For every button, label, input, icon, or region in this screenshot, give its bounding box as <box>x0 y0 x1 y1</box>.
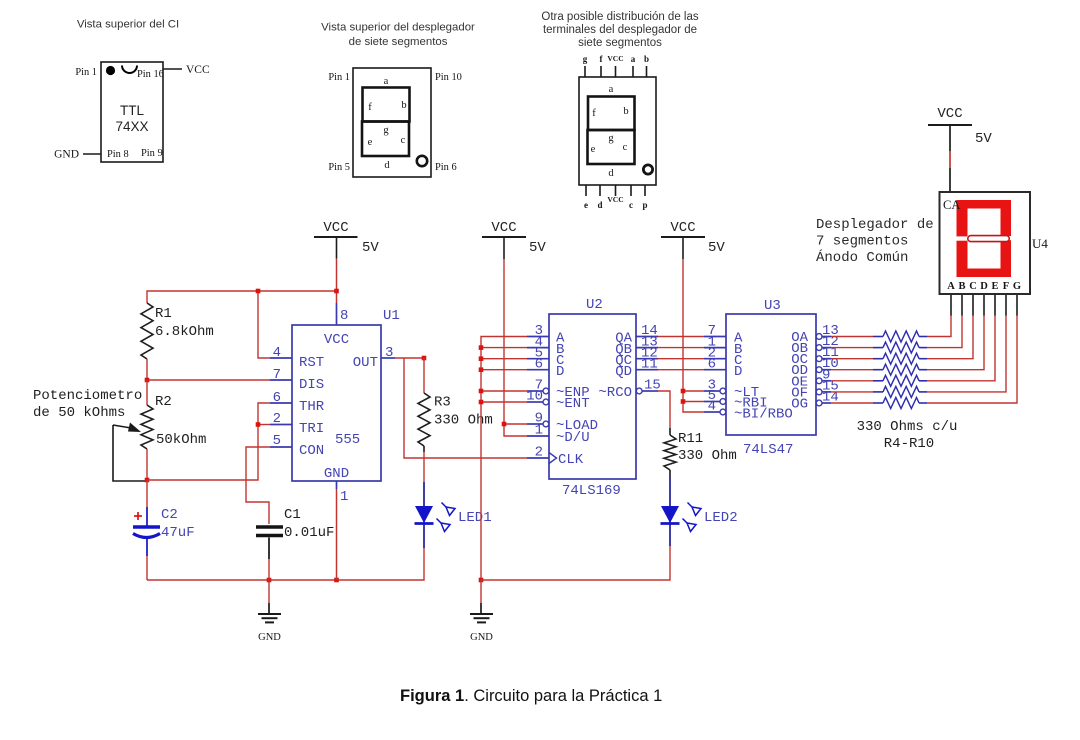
display pin leads (black) <box>951 294 1017 316</box>
capacitor C2 47uF (polarized) <box>133 507 195 556</box>
wire C1 to rail <box>268 559 270 580</box>
wire top VCC rail <box>147 291 337 303</box>
svg-text:7 segmentos: 7 segmentos <box>816 234 908 250</box>
svg-text:U4: U4 <box>1032 236 1048 251</box>
svg-text:4: 4 <box>708 399 716 415</box>
svg-text:D: D <box>556 364 564 380</box>
svg-text:0.01uF: 0.01uF <box>284 525 334 541</box>
svg-text:6: 6 <box>535 356 543 372</box>
wire R11 to LED2 <box>669 470 671 478</box>
svg-text:b: b <box>644 54 649 64</box>
svg-text:4: 4 <box>273 345 281 361</box>
svg-text:11: 11 <box>641 356 658 372</box>
svg-text:5V: 5V <box>362 240 379 256</box>
resistor R6 330 Ohm <box>873 353 927 364</box>
svg-text:10: 10 <box>526 389 543 405</box>
svg-text:VCC: VCC <box>186 64 210 76</box>
junction pin1/rail <box>334 578 339 583</box>
svg-text:2: 2 <box>273 411 281 427</box>
label Pin 8 <box>107 149 129 160</box>
wires resistors to display segment pins <box>927 315 1017 403</box>
svg-text:CA: CA <box>943 198 960 212</box>
LED1 light arrows <box>437 503 456 532</box>
svg-text:c: c <box>401 135 406 146</box>
svg-text:6.8kOhm: 6.8kOhm <box>155 324 214 340</box>
label CA <box>943 198 960 212</box>
svg-text:VCC: VCC <box>607 54 623 63</box>
U3 right pin stubs <box>816 334 822 340</box>
IC notch arc <box>122 66 137 74</box>
power symbol VCC 5V (U1) <box>314 220 379 259</box>
wire rail to pin8 <box>336 291 338 303</box>
svg-text:5V: 5V <box>975 131 992 147</box>
svg-text:C1: C1 <box>284 507 301 523</box>
svg-text:~ENT: ~ENT <box>556 396 590 412</box>
svg-text:a: a <box>631 54 636 64</box>
wire R1 bottom to DIS node <box>146 359 148 380</box>
svg-text:CLK: CLK <box>558 452 584 468</box>
LED2 light arrows <box>683 503 702 532</box>
title: Vista superior del CI <box>77 19 179 31</box>
junction DIS node <box>145 378 150 383</box>
label Pin 10 <box>435 72 462 83</box>
LED1 <box>415 482 434 548</box>
figure-8 segment outline <box>362 88 410 157</box>
svg-text:Pin 10: Pin 10 <box>435 72 462 83</box>
svg-text:U3: U3 <box>764 298 781 314</box>
svg-text:Pin 8: Pin 8 <box>107 149 129 160</box>
wire DIS <box>147 379 270 381</box>
designator U4 <box>1032 236 1048 251</box>
svg-text:d: d <box>608 168 614 179</box>
value 74LS47 <box>743 442 793 458</box>
svg-text:QD: QD <box>615 364 632 380</box>
svg-text:2: 2 <box>535 445 543 461</box>
caption Figura 1 <box>400 687 662 705</box>
wire U2 input ground bus <box>481 337 527 581</box>
svg-text:RST: RST <box>299 355 324 371</box>
wires QA-QD to U3 A-D <box>658 337 704 370</box>
title: Vista superior del desplegador de siete segmentos <box>321 22 475 49</box>
svg-text:terminales del desplegador de: terminales del desplegador de <box>543 24 697 36</box>
svg-text:THR: THR <box>299 399 325 415</box>
potentiometer R2 50kOhm <box>141 394 206 449</box>
label LED1 <box>458 510 492 526</box>
svg-text:D: D <box>734 364 742 380</box>
svg-text:6: 6 <box>273 390 281 406</box>
svg-text:5V: 5V <box>708 240 725 256</box>
svg-text:g: g <box>608 133 614 144</box>
label R4-R10 <box>884 436 934 452</box>
svg-text:b: b <box>401 100 406 111</box>
svg-text:siete segmentos: siete segmentos <box>578 37 662 49</box>
svg-text:74XX: 74XX <box>115 119 148 134</box>
ground symbol 1 <box>258 580 281 643</box>
op IC U1 555 timer body <box>270 303 395 505</box>
svg-text:3: 3 <box>385 345 393 361</box>
junction LOAD <box>502 422 507 427</box>
svg-text:R3: R3 <box>434 395 451 411</box>
junction TRI <box>256 422 261 427</box>
svg-text:f: f <box>592 108 596 119</box>
svg-text:VCC: VCC <box>937 106 962 122</box>
label Pin 6 <box>435 162 457 173</box>
svg-text:LED1: LED1 <box>458 510 492 526</box>
svg-text:50kOhm: 50kOhm <box>156 432 206 448</box>
svg-text:e: e <box>584 200 588 210</box>
wire R3 to LED1 <box>423 446 425 482</box>
svg-text:G: G <box>1013 281 1021 292</box>
resistor R1 6.8kOhm <box>141 303 214 359</box>
pin stubs left <box>270 357 292 359</box>
wires U3 outputs to resistors <box>831 337 873 404</box>
svg-text:47uF: 47uF <box>161 525 195 541</box>
designator U1 <box>383 308 400 324</box>
svg-text:g: g <box>383 125 389 136</box>
svg-text:6: 6 <box>708 356 716 372</box>
svg-text:D: D <box>980 281 988 292</box>
svg-text:a: a <box>609 84 614 95</box>
svg-text:~D/U: ~D/U <box>556 430 590 446</box>
resistor R7 330 Ohm <box>873 364 927 375</box>
pin stub bottom 1 <box>336 481 338 489</box>
wire CON to C1 <box>246 447 270 524</box>
junction C1/rail <box>267 578 272 583</box>
potentiometer wiper arrow <box>113 423 141 433</box>
svg-text:74LS169: 74LS169 <box>562 483 621 499</box>
wire VCC stem to rail <box>336 259 338 291</box>
svg-text:Pin 5: Pin 5 <box>328 162 350 173</box>
wire bottom ground rail (right) <box>481 546 670 580</box>
display segment pin letters <box>947 281 1021 292</box>
pin stub right 3 <box>381 357 395 359</box>
svg-text:Pin 1: Pin 1 <box>75 67 97 78</box>
GND lead on IC view <box>54 149 101 161</box>
power symbol VCC 5V (display) <box>928 106 992 151</box>
IC 74XX top-view body <box>101 62 163 162</box>
wire VCC to display CA <box>949 151 951 192</box>
svg-text:Otra posible distribución de l: Otra posible distribución de las <box>541 11 698 23</box>
svg-text:OG: OG <box>791 397 808 413</box>
svg-text:Pin 1: Pin 1 <box>328 72 350 83</box>
svg-text:a: a <box>384 76 389 87</box>
resistor R11 330 Ohm <box>664 428 737 470</box>
svg-text:d: d <box>597 200 602 210</box>
svg-text:7: 7 <box>273 367 281 383</box>
svg-text:GND: GND <box>54 149 79 161</box>
svg-text:C: C <box>969 281 977 292</box>
svg-text:GND: GND <box>470 632 493 643</box>
label 330 Ohms c/u <box>857 419 958 435</box>
svg-text:GND: GND <box>258 632 281 643</box>
svg-text:R1: R1 <box>155 306 172 322</box>
svg-text:Potenciometro: Potenciometro <box>33 388 142 404</box>
svg-text:TRI: TRI <box>299 421 324 437</box>
svg-text:e: e <box>591 144 596 155</box>
svg-text:~RCO: ~RCO <box>598 385 632 401</box>
designator U2 <box>586 297 603 313</box>
label Pin 5 <box>328 162 350 173</box>
resistor R9 330 Ohm <box>873 386 927 397</box>
svg-text:Vista superior del CI: Vista superior del CI <box>77 19 179 31</box>
svg-text:p: p <box>642 200 647 210</box>
label Potenciometro <box>33 388 142 421</box>
svg-text:330 Ohm: 330 Ohm <box>434 413 493 429</box>
svg-text:VCC: VCC <box>607 195 623 204</box>
svg-text:U2: U2 <box>586 297 603 313</box>
wire OUT net to CLK and R3 <box>395 358 527 458</box>
IC pin-1 marker dot <box>106 66 115 75</box>
capacitor C1 0.01uF <box>256 507 334 559</box>
junction LT <box>681 389 686 394</box>
svg-text:R4-R10: R4-R10 <box>884 436 934 452</box>
7-segment display top-view body <box>353 68 431 177</box>
svg-text:VCC: VCC <box>323 220 348 236</box>
resistor R8 330 Ohm <box>873 375 927 386</box>
label Desplegador <box>816 217 934 266</box>
top pin leads g f VCC a b <box>585 66 647 77</box>
svg-text:DIS: DIS <box>299 377 324 393</box>
svg-text:c: c <box>629 200 633 210</box>
svg-text:C2: C2 <box>161 507 178 523</box>
C2 plus sign <box>134 512 142 520</box>
svg-text:5V: 5V <box>529 240 546 256</box>
wire 555 pin1 to rail <box>336 489 338 580</box>
svg-text:8: 8 <box>340 308 348 324</box>
wire bottom ground rail (left) <box>147 548 424 580</box>
junction rail/VCC pin8 <box>334 289 339 294</box>
red segment digit 8 <box>956 200 1013 277</box>
bottom pin labels <box>584 195 648 210</box>
wire R2 bottom <box>146 449 148 480</box>
title: Otra posible distribucion <box>541 11 698 49</box>
svg-text:F: F <box>1003 281 1009 292</box>
label LED2 <box>704 510 738 526</box>
power symbol VCC 5V (U3) <box>661 220 725 259</box>
svg-text:TTL: TTL <box>120 103 144 118</box>
segment letters a f b g e c d <box>368 76 407 171</box>
decimal point circle <box>417 156 427 166</box>
svg-text:Pin 6: Pin 6 <box>435 162 457 173</box>
designator U3 <box>764 298 781 314</box>
svg-text:R11: R11 <box>678 431 703 447</box>
counter IC U2 74LS169 body <box>526 314 661 479</box>
svg-text:OUT: OUT <box>353 355 378 371</box>
svg-text:Figura 1. Circuito para la Prá: Figura 1. Circuito para la Práctica 1 <box>400 687 662 705</box>
svg-text:1: 1 <box>340 489 348 505</box>
U2 left pin stubs <box>527 336 549 338</box>
svg-text:A: A <box>947 281 955 292</box>
junctions on ground bus <box>479 345 484 404</box>
decoder IC U3 74LS47 body <box>704 314 839 435</box>
pin stub top 8 <box>336 303 338 325</box>
ground symbol 2 <box>470 580 493 643</box>
svg-text:de siete segmentos: de siete segmentos <box>349 36 448 48</box>
wire C2 to bottom rail <box>146 556 148 580</box>
junction R2/wiper/bottom <box>145 478 150 483</box>
label Pin 16 <box>137 69 164 80</box>
svg-text:d: d <box>384 160 390 171</box>
U2 right pin stubs <box>636 336 658 338</box>
svg-text:330 Ohm: 330 Ohm <box>678 448 737 464</box>
svg-text:f: f <box>368 102 372 113</box>
svg-text:E: E <box>991 281 998 292</box>
wire DIS node down to R2 <box>146 380 148 405</box>
svg-text:f: f <box>600 54 604 64</box>
wiper loop wire <box>113 425 146 481</box>
alt 7-segment body <box>579 77 656 185</box>
svg-text:Ánodo Común: Ánodo Común <box>816 248 908 266</box>
wire TRI-THR net <box>147 403 270 480</box>
VCC lead on IC view <box>163 64 210 76</box>
svg-text:LED2: LED2 <box>704 510 738 526</box>
alt decimal point <box>643 165 652 174</box>
junction rail/RST <box>256 289 261 294</box>
svg-text:e: e <box>368 137 373 148</box>
svg-text:g: g <box>583 54 588 64</box>
label Pin 1 <box>75 67 97 78</box>
junction RBI <box>681 399 686 404</box>
value 74LS169 <box>562 483 621 499</box>
wire node to C2 <box>146 480 148 507</box>
label Pin 9 <box>141 148 163 159</box>
svg-text:U1: U1 <box>383 308 400 324</box>
svg-text:Pin 9: Pin 9 <box>141 148 163 159</box>
top pin labels <box>583 54 649 64</box>
svg-text:GND: GND <box>324 466 349 482</box>
svg-text:CON: CON <box>299 443 324 459</box>
svg-text:b: b <box>623 106 628 117</box>
svg-text:Vista superior del desplegador: Vista superior del desplegador <box>321 22 475 34</box>
svg-text:1: 1 <box>535 423 543 439</box>
svg-text:5: 5 <box>273 433 281 449</box>
resistor R5 330 Ohm <box>873 342 927 353</box>
power symbol VCC 5V (U2) <box>482 220 546 259</box>
bottom pin leads e d VCC c p <box>586 185 645 196</box>
wire RCO to R11 <box>658 391 670 428</box>
svg-text:B: B <box>958 281 965 292</box>
resistor R4 330 Ohm <box>873 331 927 342</box>
svg-text:de 50 kOhms: de 50 kOhms <box>33 405 125 421</box>
svg-text:555: 555 <box>335 432 360 448</box>
junction OUT/R3 <box>422 356 427 361</box>
alt figure-8 outline <box>588 97 635 165</box>
LED2 <box>661 478 680 546</box>
resistor R10 330 Ohm <box>873 398 927 409</box>
svg-text:VCC: VCC <box>324 332 349 348</box>
label Pin 1 <box>328 72 350 83</box>
svg-text:Desplegador de: Desplegador de <box>816 217 934 233</box>
alt segment letters <box>591 84 629 179</box>
svg-text:~BI/RBO: ~BI/RBO <box>734 407 793 423</box>
wire VCC3 bus to LT RBI BI/RBO <box>683 259 704 412</box>
svg-text:VCC: VCC <box>670 220 695 236</box>
wire RST branch <box>258 291 270 358</box>
7-segment display U4 body <box>940 192 1031 294</box>
svg-text:Pin 16: Pin 16 <box>137 69 164 80</box>
svg-text:VCC: VCC <box>491 220 516 236</box>
svg-text:330 Ohms c/u: 330 Ohms c/u <box>857 419 958 435</box>
U3 left pin stubs <box>704 336 726 338</box>
wire down to R3 <box>423 358 425 393</box>
svg-text:R2: R2 <box>155 394 172 410</box>
svg-text:c: c <box>623 142 628 153</box>
wire VCC2 bus to LOAD and D/U <box>504 259 527 436</box>
junction rail B <box>479 578 484 583</box>
resistor R3 330 Ohm <box>418 393 493 446</box>
svg-text:74LS47: 74LS47 <box>743 442 793 458</box>
